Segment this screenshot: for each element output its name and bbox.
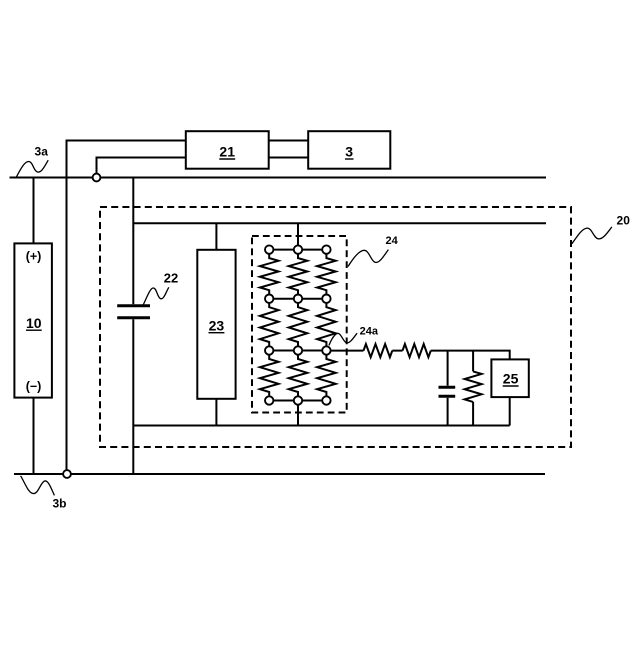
svg-text:(+): (+): [26, 250, 42, 264]
svg-text:(−): (−): [26, 380, 42, 394]
svg-text:21: 21: [219, 144, 235, 160]
svg-text:10: 10: [26, 315, 42, 331]
svg-text:3: 3: [345, 144, 353, 160]
svg-text:25: 25: [503, 371, 519, 387]
svg-text:20: 20: [617, 213, 631, 227]
svg-text:3a: 3a: [35, 145, 49, 159]
svg-text:3b: 3b: [52, 497, 66, 511]
svg-text:23: 23: [209, 317, 225, 333]
svg-text:24: 24: [385, 235, 398, 247]
svg-text:24a: 24a: [360, 326, 379, 338]
svg-text:22: 22: [164, 271, 178, 286]
